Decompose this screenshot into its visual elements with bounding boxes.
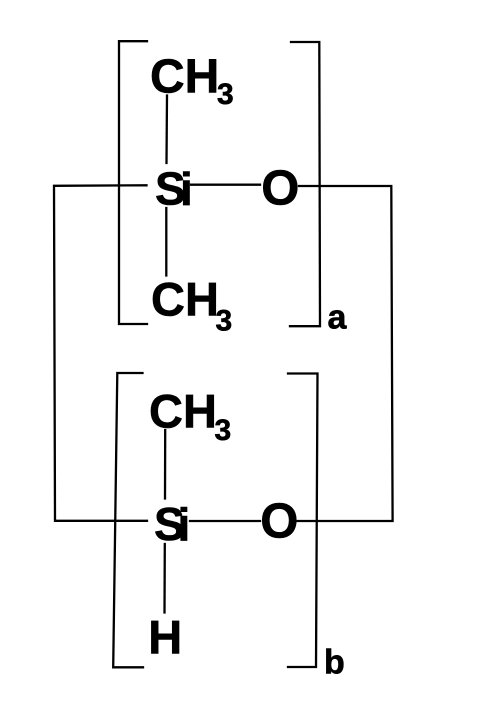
silicon atom Si (unit a) [155, 162, 193, 215]
svg-text:H: H [148, 610, 182, 663]
svg-text:CH: CH [151, 273, 219, 326]
bond CH3-Si (unit a) [165, 96, 168, 164]
svg-text:b: b [324, 643, 345, 681]
methyl group CH3 (unit a, bottom) [151, 273, 232, 338]
svg-text:3: 3 [217, 78, 234, 111]
outer bracket right [297, 186, 393, 521]
svg-text:CH: CH [149, 385, 217, 438]
silicon atom Si (unit b) [154, 498, 190, 551]
bracket b right [288, 374, 318, 668]
methyl group CH3 (unit a, top) [150, 50, 234, 111]
bracket a left [119, 41, 147, 324]
bond Si-CH3 (unit a) [165, 208, 167, 276]
svg-text:CH: CH [150, 50, 219, 103]
svg-text:a: a [328, 298, 348, 336]
bond Si-H (unit b) [163, 544, 166, 613]
svg-text:O: O [260, 495, 298, 549]
bracket b left [113, 373, 143, 667]
svg-text:i: i [180, 163, 193, 215]
bond Si-O (unit b) [190, 520, 260, 522]
svg-text:O: O [261, 162, 299, 216]
outer bracket left [54, 185, 147, 521]
svg-text:3: 3 [215, 414, 232, 447]
bond CH3-Si (unit b) [164, 430, 166, 499]
svg-text:3: 3 [216, 304, 233, 337]
methyl group CH3 (unit b, top) [149, 385, 231, 448]
bond Si-O (unit a) [191, 184, 260, 186]
bracket a right [290, 42, 320, 326]
svg-text:i: i [178, 498, 191, 550]
